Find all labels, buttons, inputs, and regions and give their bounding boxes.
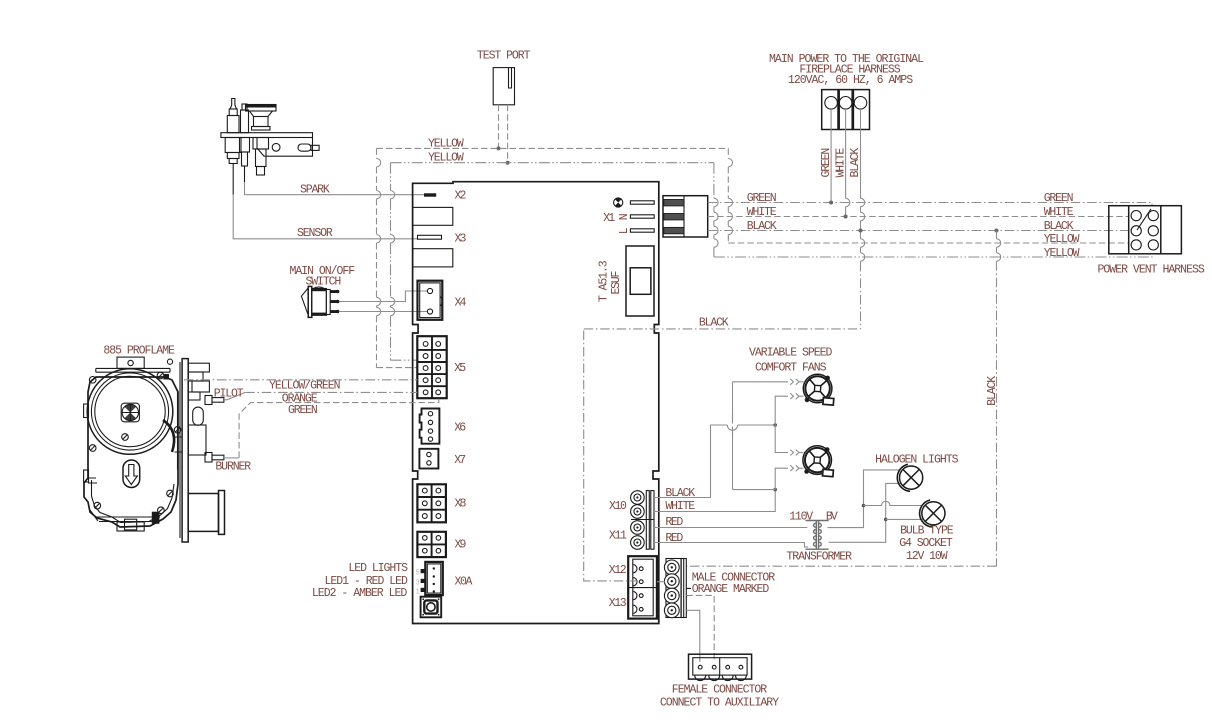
label 885 PROFLAME <box>103 344 175 357</box>
label YELLOW/GREEN <box>269 379 341 392</box>
wire test port lead 2 <box>506 105 510 165</box>
label BURNER <box>215 461 251 474</box>
hop fan wiring <box>727 414 737 436</box>
labels LED lights <box>312 562 408 600</box>
pilot assembly bracket <box>221 133 319 157</box>
svg-text:110V: 110V <box>789 510 813 523</box>
svg-text:FEMALE CONNECTOR: FEMALE CONNECTOR <box>672 684 767 697</box>
label X13 <box>609 597 627 610</box>
valve pilot outlet <box>205 396 224 405</box>
svg-text:YELLOW: YELLOW <box>1044 233 1080 246</box>
svg-text:WHITE: WHITE <box>1044 206 1074 219</box>
svg-text:X3: X3 <box>455 233 467 246</box>
label MALE CONNECTOR <box>692 571 775 584</box>
wire BLACK right loop <box>686 229 1000 567</box>
connectors X12 X13 <box>628 556 657 618</box>
label GREEN vertical <box>820 148 833 178</box>
valve center screw knob <box>121 403 139 422</box>
connector X4 <box>418 281 443 320</box>
label GREEN <box>288 404 318 417</box>
wire secondary top to halogen1 <box>828 470 900 528</box>
connector X1 pins <box>630 201 654 232</box>
svg-text:L: L <box>618 227 631 234</box>
svg-text:COMFORT FANS: COMFORT FANS <box>755 362 827 375</box>
label 3.15A T <box>598 260 611 302</box>
connector X3 pin <box>418 235 442 239</box>
valve burner outlet <box>205 453 224 463</box>
valve bottom cylinder <box>188 491 224 535</box>
svg-text:X13: X13 <box>609 597 627 610</box>
svg-text:X1: X1 <box>603 212 615 225</box>
fan motor 1 <box>803 374 834 405</box>
wire X12 to male pin2 <box>657 581 665 583</box>
svg-text:X11: X11 <box>609 529 627 542</box>
wire RED 1 to transformer <box>654 527 807 529</box>
label SPARK <box>300 183 330 196</box>
svg-text:GREEN: GREEN <box>1044 192 1074 205</box>
wire SPARK (sensor electrode to X2) <box>245 182 425 195</box>
push button <box>421 597 442 618</box>
svg-text:X4: X4 <box>455 296 467 309</box>
svg-text:X8: X8 <box>455 497 467 510</box>
svg-text:POWER VENT HARNESS: POWER VENT HARNESS <box>1098 264 1205 277</box>
label SWITCH <box>306 275 342 288</box>
connectors X10 X11 <box>631 491 654 550</box>
svg-text:BULB TYPE: BULB TYPE <box>900 524 954 537</box>
connector X1 external block <box>663 196 708 237</box>
svg-text:YELLOW/GREEN: YELLOW/GREEN <box>269 379 341 392</box>
svg-text:12V 10W: 12V 10W <box>906 550 948 563</box>
wire BLACK mains <box>708 230 1129 232</box>
svg-text:X2: X2 <box>455 190 467 203</box>
label X0A <box>455 576 473 589</box>
svg-text:X0A: X0A <box>455 576 473 589</box>
valve body outline <box>84 357 178 531</box>
label FEMALE CONNECTOR <box>672 684 767 697</box>
label WHITE vertical <box>834 148 847 178</box>
flame sensor electrode <box>240 104 250 182</box>
label BV <box>826 510 838 523</box>
label POWER VENT HARNESS <box>1098 264 1205 277</box>
label ORANGE <box>282 392 318 405</box>
svg-text:BLACK: BLACK <box>986 376 999 406</box>
halogen lamp 2 <box>920 500 945 527</box>
connector X8 <box>417 484 446 522</box>
svg-text:1: 1 <box>416 589 420 597</box>
connector X9 <box>417 532 446 557</box>
wire male pin4 to female <box>686 610 700 662</box>
valve solenoid block <box>188 363 209 455</box>
label X9 <box>455 538 467 551</box>
label X5 <box>454 362 466 375</box>
wire X10 white to fans <box>654 379 803 512</box>
svg-text:LED2 - AMBER LED: LED2 - AMBER LED <box>312 587 407 600</box>
svg-text:BLACK: BLACK <box>1044 220 1074 233</box>
label X8 <box>455 497 467 510</box>
wire YELLOW 2 horizontal <box>391 162 714 164</box>
control board outline <box>413 182 659 624</box>
wire YELLOW 1 right vertical <box>728 148 1128 243</box>
valve mounting plate <box>180 359 188 542</box>
svg-text:SWITCH: SWITCH <box>306 275 342 288</box>
label MAIN POWER TO THE ORIGINAL <box>769 53 924 66</box>
svg-text:X10: X10 <box>609 500 627 513</box>
label ORANGE MARKED <box>692 583 770 596</box>
wire YELLOW/GREEN valve to X5 <box>184 379 417 381</box>
label WHITE left <box>747 206 777 219</box>
ground symbol at X1 <box>614 198 623 207</box>
svg-text:BLACK: BLACK <box>665 487 695 500</box>
wire WHITE mains <box>708 216 1129 218</box>
label BLACK vertical right <box>986 376 999 406</box>
svg-text:TEST PORT: TEST PORT <box>477 49 531 62</box>
wire male pin3 to female <box>686 595 714 662</box>
svg-text:X12: X12 <box>609 564 627 577</box>
svg-text:885 PROFLAME: 885 PROFLAME <box>103 344 175 357</box>
label SENSOR <box>297 227 333 240</box>
label BLACK left <box>747 220 777 233</box>
label TRANSFORMER <box>786 550 852 563</box>
label X4 <box>455 296 467 309</box>
main power connector <box>822 90 870 130</box>
label BLACK vertical <box>849 148 862 178</box>
spark electrode <box>225 99 241 195</box>
label FIREPLACE HARNESS <box>799 63 900 76</box>
svg-text:X6: X6 <box>454 421 466 434</box>
label X11 <box>609 529 627 542</box>
svg-text:YELLOW: YELLOW <box>428 137 464 150</box>
label PILOT <box>214 387 244 400</box>
label BULB TYPE <box>900 524 954 537</box>
wire GREEN mains <box>708 203 1152 206</box>
svg-text:HALOGEN LIGHTS: HALOGEN LIGHTS <box>875 453 958 466</box>
power vent harness connector <box>1109 206 1182 254</box>
label 120VAC 60HZ 6AMPS <box>788 74 913 87</box>
svg-text:T A51.3: T A51.3 <box>598 260 611 302</box>
wire YELLOW 1 horizontal <box>377 147 729 149</box>
label TEST PORT <box>477 49 531 62</box>
label BLACK wire <box>699 316 729 329</box>
label N <box>618 213 631 220</box>
svg-text:BURNER: BURNER <box>215 461 251 474</box>
label G4 SOCKET <box>899 537 953 550</box>
svg-text:WHITE: WHITE <box>747 206 777 219</box>
svg-text:GREEN: GREEN <box>747 192 777 205</box>
fuse F1 3.15A <box>626 246 654 316</box>
fan motor 2 <box>803 446 834 477</box>
wire BLACK to board <box>584 328 861 330</box>
wire black internal to X12 <box>584 331 637 581</box>
label X6 <box>454 421 466 434</box>
female connector <box>689 654 752 680</box>
connector X6 <box>420 409 440 444</box>
svg-text:YELLOW: YELLOW <box>1044 247 1080 260</box>
wire RED 2 to transformer <box>654 543 808 547</box>
valve screws <box>89 372 181 513</box>
wire SENSOR (spark electrode to X3) <box>233 195 417 239</box>
wire branch to halogen2 bottom <box>886 518 924 520</box>
valve right linkage <box>88 374 182 522</box>
svg-text:SPARK: SPARK <box>300 183 330 196</box>
labels VARIABLE SPEED COMFORT FANS <box>749 347 832 375</box>
svg-text:120VAC, 60 HZ, 6 AMPS: 120VAC, 60 HZ, 6 AMPS <box>788 74 913 87</box>
svg-text:VARIABLE SPEED: VARIABLE SPEED <box>749 347 832 360</box>
valve main diaphragm circle <box>87 369 173 455</box>
svg-text:ESUF: ESUF <box>610 271 623 295</box>
svg-text:X9: X9 <box>455 538 467 551</box>
label BLACK x10 <box>665 487 695 500</box>
svg-text:CONNECT TO AUXILIARY: CONNECT TO AUXILIARY <box>660 697 779 710</box>
label YELLOW 1 <box>428 137 464 150</box>
svg-text:WHITE: WHITE <box>665 500 695 513</box>
svg-text:N: N <box>618 213 631 220</box>
svg-text:BLACK: BLACK <box>747 220 777 233</box>
connector X0A <box>416 562 443 597</box>
wire YELLOW 2 left vertical to X5 <box>391 163 418 361</box>
wire test port lead 1 <box>497 105 501 151</box>
wire X10 black to fans <box>654 393 803 497</box>
svg-text:BLACK: BLACK <box>699 316 729 329</box>
label WHITE x10 <box>665 500 695 513</box>
connector X2 pin <box>424 193 436 196</box>
label GREEN left <box>747 192 777 205</box>
board edge tab below X2 <box>413 207 453 225</box>
svg-text:GREEN: GREEN <box>288 404 318 417</box>
label HALOGEN LIGHTS <box>875 453 958 466</box>
label 110V <box>789 510 813 523</box>
label X7 <box>454 454 466 467</box>
label X12 <box>609 564 627 577</box>
label X2 <box>455 190 467 203</box>
valve lever hook <box>163 420 174 452</box>
svg-text:YELLOW: YELLOW <box>428 152 464 165</box>
svg-text:PILOT: PILOT <box>214 387 244 400</box>
wire branch to halogen2 top <box>864 501 922 505</box>
wire PILOT ORANGE to X5 <box>224 392 417 399</box>
svg-text:LED LIGHTS: LED LIGHTS <box>348 562 408 575</box>
connector X7 <box>419 449 438 469</box>
connector X5 <box>417 336 446 398</box>
test port connector <box>493 68 514 105</box>
board edge tab below X3 <box>413 249 453 267</box>
wire switch to X4 pin 2 <box>339 311 427 313</box>
label L <box>618 227 631 234</box>
svg-text:X7: X7 <box>454 454 466 467</box>
halogen lamp 1 <box>897 464 922 491</box>
wire secondary bottom to halogen1 <box>829 483 901 542</box>
wire green power lead <box>829 109 833 204</box>
wire YELLOW 2 right vertical <box>714 163 1152 257</box>
label RED x11a <box>665 516 683 529</box>
pilot burner head <box>246 105 277 176</box>
wire white power lead <box>844 109 850 218</box>
wire black power lead <box>859 109 865 329</box>
label 12V 10W <box>906 550 948 563</box>
label YELLOW 2 <box>428 152 464 165</box>
label RED x11b <box>665 532 683 545</box>
transformer T1 <box>806 521 829 550</box>
svg-text:5: 5 <box>416 570 420 578</box>
valve small hatched block <box>152 512 160 524</box>
main on/off switch <box>301 286 339 317</box>
label FUSE <box>610 271 623 295</box>
wire switch to X4 pin 1 <box>339 291 427 302</box>
label X10 <box>609 500 627 513</box>
valve down-arrow knob <box>123 460 140 488</box>
svg-text:X5: X5 <box>454 362 466 375</box>
label CONNECT TO AUXILIARY <box>660 697 779 710</box>
label MAIN ON/OFF <box>290 265 356 278</box>
wire YELLOW 1 left vertical to X5 <box>377 148 418 367</box>
wire BURNER GREEN to X5 <box>224 399 439 458</box>
svg-text:G4 SOCKET: G4 SOCKET <box>899 537 953 550</box>
male connector <box>664 559 691 618</box>
label X3 <box>455 233 467 246</box>
svg-text:RED: RED <box>665 516 683 529</box>
svg-text:3: 3 <box>416 580 420 588</box>
label X1 <box>603 212 615 225</box>
svg-text:ORANGE MARKED: ORANGE MARKED <box>692 583 770 596</box>
svg-text:SENSOR: SENSOR <box>297 227 333 240</box>
svg-text:TRANSFORMER: TRANSFORMER <box>786 550 852 563</box>
labels harness wires <box>1044 192 1080 260</box>
svg-text:BV: BV <box>826 510 838 523</box>
